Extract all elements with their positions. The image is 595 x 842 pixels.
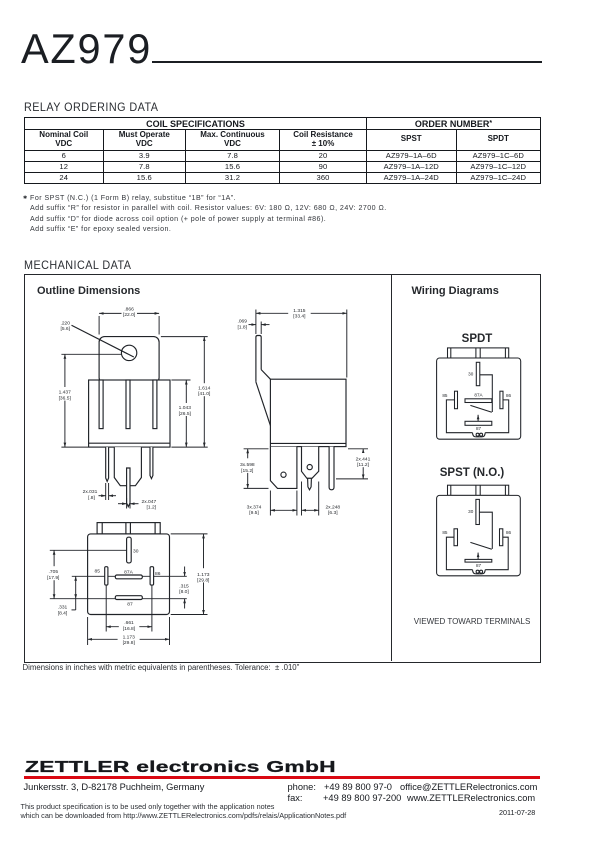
svg-text:2x.031: 2x.031 bbox=[83, 489, 98, 495]
svg-text:.069: .069 bbox=[237, 319, 247, 325]
svg-text:[6.3]: [6.3] bbox=[328, 510, 338, 516]
svg-text:[22.0]: [22.0] bbox=[123, 312, 136, 318]
svg-text:[16.8]: [16.8] bbox=[123, 626, 136, 632]
svg-text:.220: .220 bbox=[60, 320, 70, 326]
svg-text:3x.374: 3x.374 bbox=[247, 504, 262, 510]
svg-text:1.315: 1.315 bbox=[293, 308, 306, 314]
svg-text:[1.8]: [1.8] bbox=[237, 324, 247, 330]
svg-text:.705: .705 bbox=[49, 569, 59, 575]
svg-text:1.437: 1.437 bbox=[59, 390, 72, 396]
svg-text:2x.441: 2x.441 bbox=[356, 456, 371, 462]
svg-text:[1.2]: [1.2] bbox=[147, 504, 157, 510]
svg-text:1.043: 1.043 bbox=[179, 405, 192, 411]
svg-text:87: 87 bbox=[127, 602, 133, 608]
svg-text:85: 85 bbox=[442, 393, 448, 398]
svg-text:87A: 87A bbox=[474, 392, 483, 397]
svg-text:[17.9]: [17.9] bbox=[47, 575, 60, 581]
svg-text:[8.0]: [8.0] bbox=[179, 589, 189, 595]
svg-text:.315: .315 bbox=[179, 584, 189, 590]
svg-text:.661: .661 bbox=[124, 620, 134, 626]
svg-text:3x.598: 3x.598 bbox=[240, 462, 255, 468]
svg-text:[41.0]: [41.0] bbox=[198, 391, 211, 397]
svg-text:86: 86 bbox=[506, 530, 512, 535]
svg-text:30: 30 bbox=[468, 509, 474, 514]
svg-text:85: 85 bbox=[95, 569, 101, 575]
svg-text:[33.4]: [33.4] bbox=[293, 314, 306, 320]
svg-text:[29.8]: [29.8] bbox=[197, 578, 210, 584]
svg-text:87A: 87A bbox=[124, 570, 133, 576]
svg-text:85: 85 bbox=[442, 530, 448, 535]
svg-text:[.8]: [.8] bbox=[88, 495, 95, 501]
svg-text:[15.2]: [15.2] bbox=[241, 468, 254, 474]
svg-text:.331: .331 bbox=[58, 605, 68, 611]
svg-text:30: 30 bbox=[468, 372, 474, 377]
svg-text:30: 30 bbox=[133, 548, 139, 554]
svg-text:87: 87 bbox=[476, 426, 482, 431]
svg-text:2x.248: 2x.248 bbox=[325, 504, 340, 510]
svg-text:[9.5]: [9.5] bbox=[249, 510, 259, 516]
svg-text:1.173: 1.173 bbox=[123, 634, 136, 640]
svg-text:86: 86 bbox=[155, 571, 161, 577]
svg-text:[5.6]: [5.6] bbox=[60, 326, 70, 332]
svg-text:.866: .866 bbox=[124, 306, 134, 312]
svg-text:2x.047: 2x.047 bbox=[142, 499, 157, 505]
svg-text:[29.8]: [29.8] bbox=[123, 640, 136, 646]
svg-text:[8.4]: [8.4] bbox=[58, 610, 68, 616]
svg-text:87: 87 bbox=[476, 563, 482, 568]
svg-text:1.614: 1.614 bbox=[198, 385, 211, 391]
svg-text:[36.5]: [36.5] bbox=[59, 395, 72, 401]
svg-text:[11.2]: [11.2] bbox=[357, 462, 370, 468]
svg-text:[26.5]: [26.5] bbox=[179, 411, 192, 417]
svg-text:86: 86 bbox=[506, 393, 512, 398]
svg-text:1.173: 1.173 bbox=[197, 572, 210, 578]
